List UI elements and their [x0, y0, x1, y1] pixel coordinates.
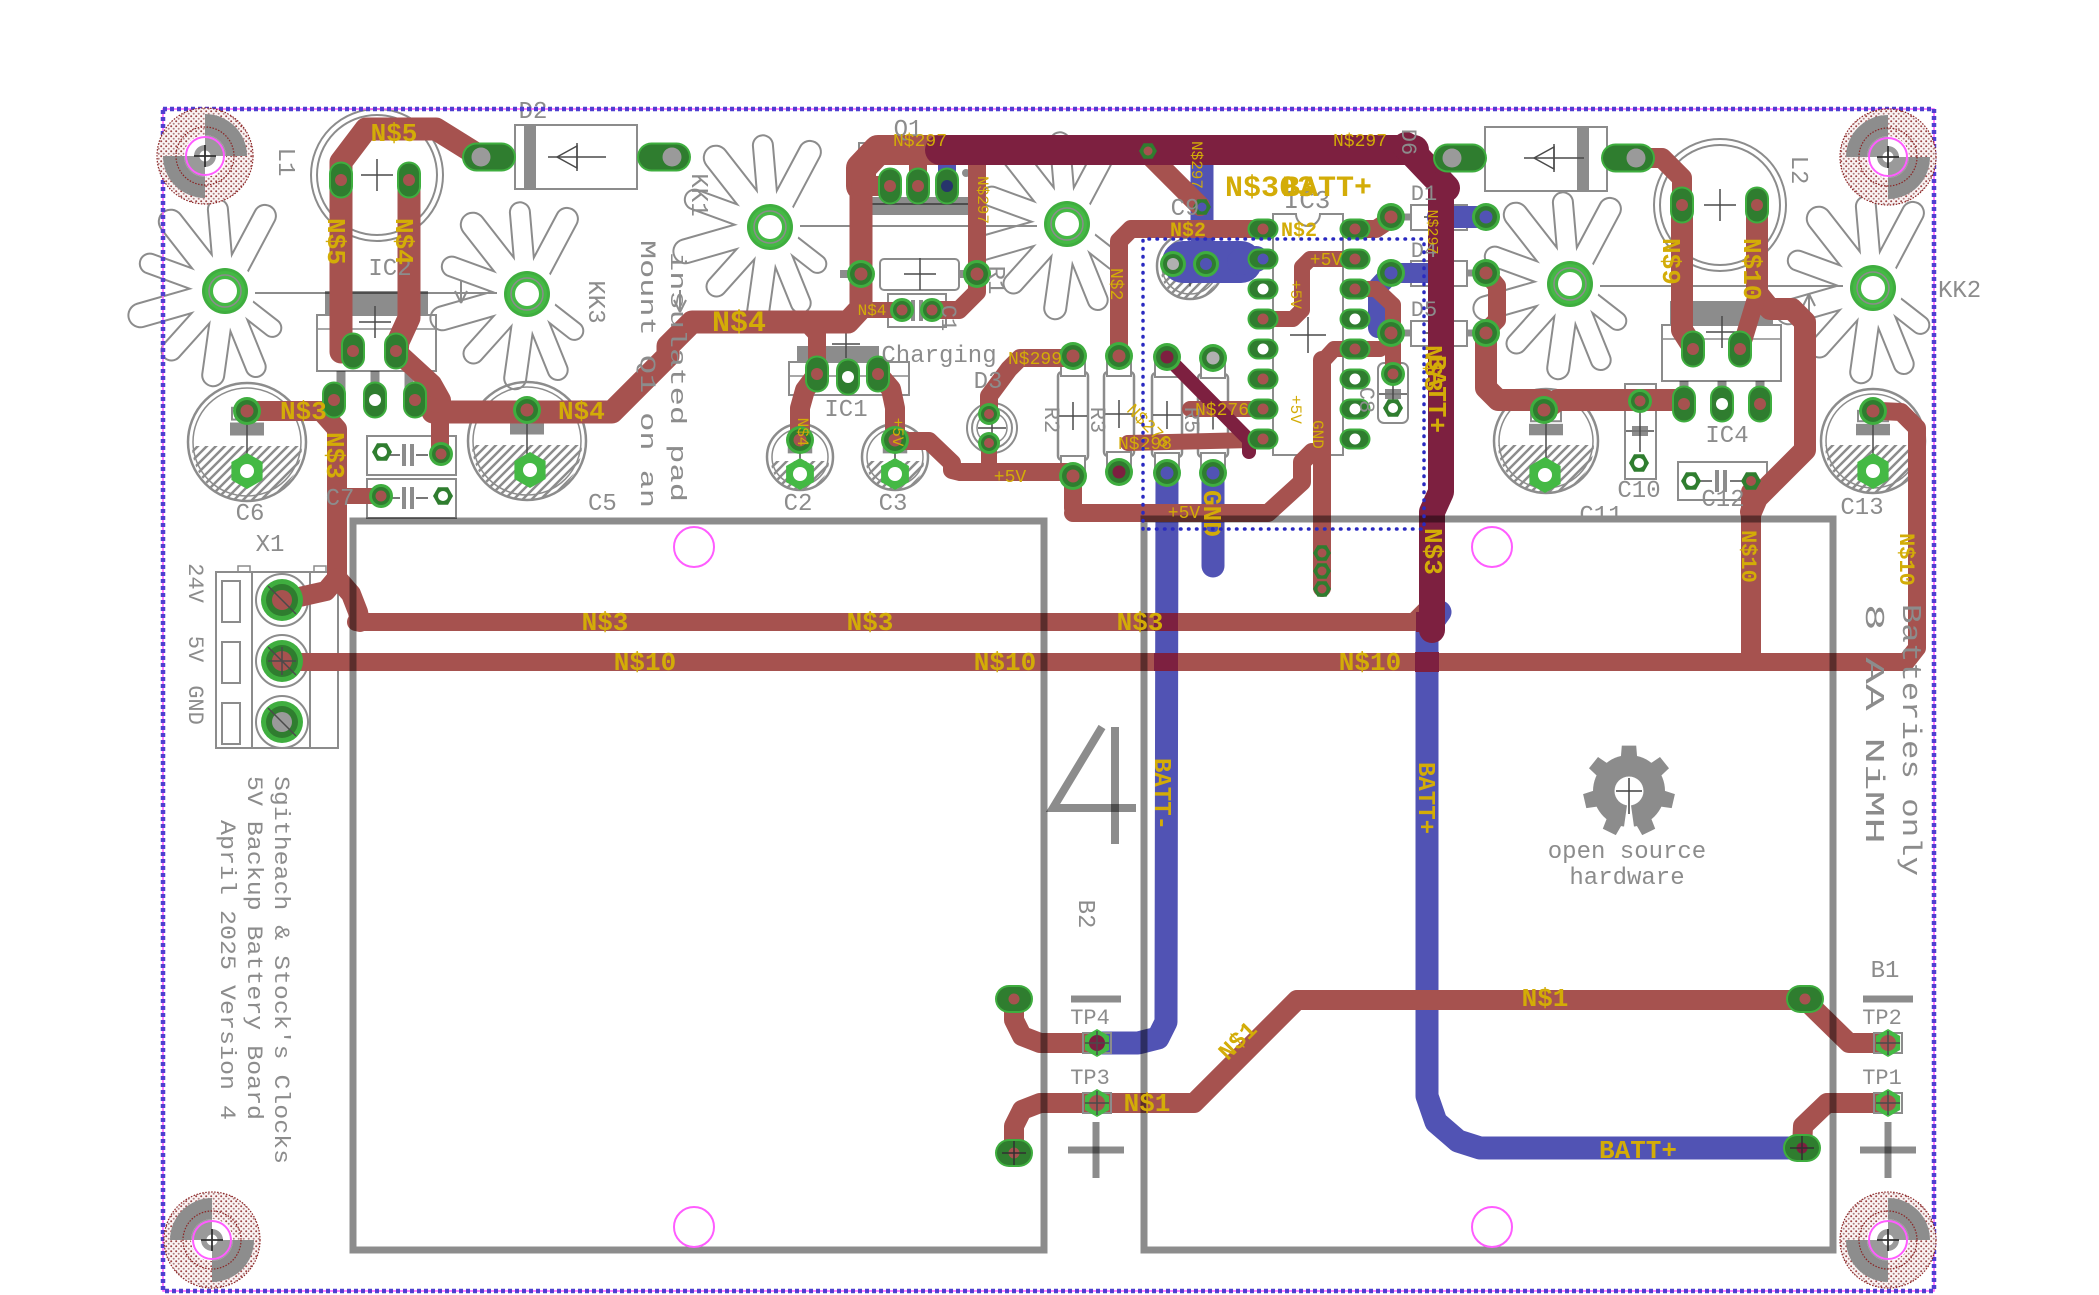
- svg-text:N$2: N$2: [1105, 268, 1125, 300]
- silk plus B2: [1068, 1147, 1124, 1154]
- pad TP2: [1874, 1033, 1902, 1053]
- via GND 1: [1313, 545, 1331, 561]
- wire N$276 diagonal: [1167, 357, 1249, 452]
- heatsink KK1: [685, 145, 817, 311]
- svg-text:GND: GND: [182, 685, 207, 725]
- svg-text:C7: C7: [326, 486, 355, 513]
- pads C5: [513, 396, 541, 424]
- overlap patch N$10 x BATT-: [1154, 653, 1178, 671]
- connector X1 outline: [216, 572, 338, 748]
- pad N$1 right: [1786, 985, 1824, 1013]
- svg-text:TP2: TP2: [1862, 1006, 1902, 1031]
- silk minus B2: [1071, 996, 1121, 1003]
- svg-text:Sgitheach & Stock's Clocks: Sgitheach & Stock's Clocks: [268, 776, 293, 1164]
- wire Q1 pad2 stub: [909, 160, 927, 186]
- pads L2: [1670, 187, 1694, 224]
- wire IC3 pad5R stub: [1355, 341, 1380, 357]
- regulator IC2 outline: [317, 291, 436, 371]
- silk arrow IC4: [1803, 294, 1815, 316]
- capacitor C6 outline: [107, 383, 387, 501]
- svg-text:KK2: KK2: [1938, 278, 1981, 305]
- wire N$297 bottom stub to Q1 pad3: [938, 160, 956, 186]
- svg-text:N$10: N$10: [1893, 533, 1918, 586]
- svg-text:C6: C6: [236, 501, 265, 528]
- svg-text:BATT+: BATT+: [1599, 1136, 1677, 1166]
- pads C7: [372, 443, 392, 460]
- transistor Q1 outline: [859, 143, 977, 204]
- pads C12: [1681, 472, 1701, 489]
- svg-text:L2: L2: [1784, 156, 1811, 185]
- capacitor C12 outline: [1678, 462, 1767, 500]
- pad BATT+ right: [1783, 1134, 1821, 1162]
- svg-text:IC4: IC4: [1705, 423, 1748, 450]
- wire N$1 TP4 branch: [1014, 999, 1097, 1043]
- open source hardware gear logo: [1583, 746, 1675, 836]
- capacitor C3 outline: [781, 424, 1009, 490]
- wire N$297/BATT+ band (top+bottom overlap): [940, 135, 1414, 165]
- capacitor C13 outline: [1740, 389, 2006, 493]
- wire +5V IC1 to C3: [878, 374, 895, 440]
- overlap patch N$3 junction: [1416, 612, 1438, 632]
- svg-text:X1: X1: [256, 532, 285, 559]
- pads R5: [1199, 344, 1227, 372]
- svg-text:N$10: N$10: [974, 648, 1036, 678]
- pads C11: [1530, 396, 1558, 424]
- wire N$10 IC4/L2 branch: [1751, 201, 1805, 512]
- svg-text:+5V: +5V: [1168, 504, 1201, 524]
- wire D4 to D5: [1486, 273, 1497, 331]
- battery holder B2 outline: [353, 521, 1044, 1250]
- svg-text:N$4: N$4: [388, 218, 418, 265]
- wire N$297 band diagonal: [1146, 152, 1200, 206]
- pads R4: [1153, 343, 1181, 371]
- LED D3 outline: [967, 403, 1017, 453]
- svg-text:C11: C11: [1579, 503, 1622, 530]
- wire N$3 junction to bus: [337, 578, 360, 622]
- pads Q1: [878, 168, 902, 205]
- svg-text:C3: C3: [879, 491, 908, 518]
- svg-text:24V: 24V: [182, 563, 207, 603]
- svg-text:N$10: N$10: [1339, 648, 1401, 678]
- IC3 outline: [1273, 214, 1343, 455]
- resistor R3: [1104, 350, 1134, 478]
- heatsink KK2: [1485, 202, 1617, 368]
- capacitor C2 outline: [686, 424, 914, 490]
- capacitor C10 outline: [1625, 384, 1656, 479]
- diode D5 outline: [1411, 321, 1467, 346]
- wire C7 lower to N$3: [346, 488, 381, 504]
- board dimension outline: [163, 109, 1934, 1291]
- svg-text:C8: C8: [1353, 387, 1378, 413]
- capacitor C1 outline: [888, 294, 946, 327]
- svg-text:N$3: N$3: [1417, 528, 1447, 575]
- wire +5V IC3 internal: [1263, 259, 1350, 319]
- wire D6 to L2: [1636, 158, 1682, 201]
- svg-text:N$297: N$297: [1187, 141, 1205, 189]
- diode D4 outline: [1411, 261, 1467, 286]
- inductor L1 outline: [311, 109, 443, 241]
- svg-text:8 AA NiMH: 8 AA NiMH: [1857, 604, 1887, 844]
- svg-text:N$298: N$298: [1118, 435, 1172, 455]
- regulator IC4 outline: [1662, 301, 1781, 381]
- wire IC4 pad4 row: [1544, 400, 1684, 410]
- wire N$298 row: [1128, 440, 1252, 443]
- wire stub IC2 pad to N$4: [396, 351, 441, 412]
- wire N$2 R3 to IC3: [1119, 229, 1258, 356]
- svg-text:N$297: N$297: [1333, 132, 1387, 152]
- svg-text:N$297: N$297: [973, 176, 991, 224]
- wire N$10 horizontal bus: [282, 411, 1917, 662]
- svg-text:C10: C10: [1617, 478, 1660, 505]
- svg-text:+5V: +5V: [888, 418, 906, 447]
- mounting hole top-left: [157, 108, 253, 204]
- svg-text:N$10: N$10: [1736, 238, 1766, 300]
- wire stub D3 cathode: [981, 444, 997, 468]
- battery holder B1 outline: [1144, 519, 1833, 1250]
- pads C2: [786, 426, 814, 454]
- wire C1 pads link: [866, 302, 902, 318]
- regulator IC1 outline: [797, 346, 879, 362]
- svg-text:N$3: N$3: [1117, 608, 1164, 638]
- pad TP3: [1083, 1093, 1111, 1113]
- svg-text:BATT+: BATT+: [1282, 172, 1372, 206]
- pads IC1: [805, 356, 829, 393]
- svg-text:+5V: +5V: [1310, 251, 1343, 271]
- svg-text:N$3: N$3: [847, 608, 894, 638]
- capacitor C8 outline: [1378, 363, 1408, 423]
- svg-text:N$5: N$5: [320, 218, 350, 265]
- via on N$297 band: [1139, 143, 1157, 159]
- wire N$4 L1 to IC2: [397, 177, 409, 352]
- svg-text:N$1: N$1: [1124, 1089, 1171, 1119]
- wire GND IC3 riser: [1313, 360, 1331, 588]
- inductor L2 outline: [1654, 139, 1786, 271]
- wire R1 to C1: [936, 274, 977, 310]
- silk minus B1: [1863, 996, 1913, 1003]
- svg-text:N$299: N$299: [1008, 350, 1062, 370]
- pads C9: [1160, 251, 1186, 277]
- svg-text:N$4: N$4: [858, 302, 887, 320]
- silk plus B1: [1860, 1147, 1916, 1154]
- pads IC3: [1248, 219, 1279, 240]
- pads X1: [261, 579, 303, 621]
- svg-text:N$3: N$3: [582, 608, 629, 638]
- wire bottom C9 to IC3 pad2: [1191, 152, 1214, 238]
- pads KK2: [1547, 261, 1593, 307]
- resistor R2: [1058, 350, 1088, 482]
- pads IC4: [1681, 331, 1705, 368]
- pads C6: [233, 397, 261, 425]
- svg-text:Charging: Charging: [881, 343, 996, 370]
- svg-text:N$3: N$3: [280, 397, 327, 427]
- wire stub IC1 pad1: [806, 322, 817, 374]
- capacitor C5 outline: [387, 382, 667, 500]
- svg-text:N$10: N$10: [614, 648, 676, 678]
- pads C3: [881, 426, 909, 454]
- svg-text:B1: B1: [1871, 958, 1900, 985]
- svg-text:N$9: N$9: [1655, 238, 1685, 285]
- svg-text:TP4: TP4: [1070, 1006, 1110, 1031]
- svg-text:C9: C9: [1171, 196, 1200, 223]
- svg-text:N$4: N$4: [558, 397, 605, 427]
- svg-text:L1: L1: [271, 148, 298, 177]
- mounting hole bottom-right: [1840, 1192, 1936, 1288]
- pads KK3: [202, 268, 248, 314]
- svg-text:TP3: TP3: [1070, 1066, 1110, 1091]
- pads C10: [1628, 389, 1652, 413]
- wire stub C7 upper: [431, 412, 449, 453]
- svg-text:R1: R1: [981, 266, 1008, 295]
- svg-text:5V Backup Battery Board: 5V Backup Battery Board: [241, 776, 266, 1120]
- diode D1 outline: [1411, 205, 1467, 230]
- vrestrict dotted rect: [1143, 239, 1424, 529]
- svg-text:N$10: N$10: [1735, 530, 1760, 583]
- svg-text:+5V: +5V: [1286, 280, 1304, 309]
- pads D3: [978, 403, 1000, 425]
- wire stub IC4 pad2: [1740, 295, 1757, 349]
- via GND 3: [1313, 581, 1331, 597]
- silk arrow IC2: [455, 281, 467, 303]
- svg-text:R3: R3: [1084, 407, 1109, 433]
- wire N$10 riser to C12: [1741, 492, 1761, 656]
- svg-text:N$276: N$276: [1195, 401, 1249, 421]
- resistor R5: [1198, 352, 1228, 479]
- resistor R1 outline: [840, 270, 861, 278]
- svg-text:D2: D2: [519, 99, 548, 126]
- svg-text:hardware: hardware: [1569, 865, 1684, 892]
- pad N$1 left: [995, 985, 1033, 1013]
- wire N$1 to TP2: [1805, 1000, 1888, 1043]
- pad TP1: [1874, 1093, 1902, 1113]
- wire +5V R2 down: [1064, 476, 1082, 508]
- svg-text:C1: C1: [935, 305, 960, 331]
- wire N$276 row: [1190, 401, 1256, 417]
- wire Q1 pad1 stub: [861, 176, 890, 196]
- via N$297 to bottom: [1193, 199, 1211, 215]
- wire N$3 horizontal bus: [356, 600, 1436, 622]
- wire bottom D4 anode: [1378, 273, 1441, 328]
- diode D2 outline: [515, 125, 637, 189]
- svg-text:C13: C13: [1840, 495, 1883, 522]
- pads R2: [1059, 342, 1087, 370]
- wire bottom to D1 cathode: [1438, 206, 1486, 228]
- svg-text:C5: C5: [588, 491, 617, 518]
- svg-text:+5V: +5V: [1286, 395, 1304, 424]
- svg-text:Batteries only: Batteries only: [1894, 604, 1924, 876]
- heatsink KK3: [140, 209, 272, 375]
- overlap patch N$10 x BATT+: [1415, 652, 1439, 672]
- pads D6: [1433, 144, 1487, 173]
- wire IC1 pad2 to C2: [800, 374, 817, 440]
- holder alignment hole bottom-right: [1472, 1207, 1512, 1247]
- pads D5: [1377, 319, 1405, 347]
- overlap patch N$3 x BATT-: [1154, 613, 1178, 631]
- svg-text:IC1: IC1: [824, 397, 867, 424]
- svg-text:C2: C2: [784, 491, 813, 518]
- svg-text:GND: GND: [1308, 420, 1326, 449]
- holder alignment hole top-left: [674, 527, 714, 567]
- wire N$297 Q1 to R1: [968, 163, 986, 274]
- mounting hole bottom-left: [164, 1192, 260, 1288]
- silk big 4: [1053, 727, 1136, 808]
- wire N$5 L1 to D2: [341, 129, 481, 352]
- svg-text:TP1: TP1: [1862, 1066, 1902, 1091]
- resistor R4: [1152, 351, 1182, 479]
- capacitor C9 outline: [1076, 233, 1304, 299]
- wire BATT+ bottom layer: [1427, 612, 1802, 1148]
- wire N$9 L2 to IC4: [1682, 201, 1693, 349]
- svg-text:N$3: N$3: [319, 432, 349, 479]
- svg-text:KK1: KK1: [684, 173, 711, 216]
- wire N$4 C5 to Q1: [433, 178, 861, 412]
- capacitor C7 outline: [367, 436, 456, 475]
- svg-text:N$4: N$4: [793, 418, 811, 447]
- pads R3: [1105, 342, 1133, 370]
- wire D5 to C11 row: [1486, 333, 1545, 400]
- pads D4: [1377, 259, 1405, 287]
- wire N$3 C6 to X1: [247, 411, 337, 600]
- svg-text:+5V: +5V: [994, 468, 1027, 488]
- wire stub IC2 pad to N$3: [330, 396, 334, 411]
- svg-text:N$297: N$297: [893, 132, 947, 152]
- pads C13: [1859, 397, 1887, 425]
- svg-text:N$4: N$4: [712, 307, 766, 341]
- pads D2: [462, 143, 516, 172]
- svg-text:C12: C12: [1701, 487, 1744, 514]
- svg-text:R2: R2: [1038, 407, 1063, 433]
- svg-text:N$1: N$1: [1522, 984, 1569, 1014]
- wire N$2 IC3 pad1R to D1: [1355, 219, 1391, 229]
- svg-text:Mount Q1 on an: Mount Q1 on an: [634, 240, 659, 508]
- pads KK1: [747, 204, 793, 250]
- svg-text:KK3: KK3: [581, 280, 608, 323]
- holder alignment hole bottom-left: [674, 1207, 714, 1247]
- svg-text:D6: D6: [1395, 129, 1420, 155]
- pads L1: [329, 162, 353, 199]
- svg-text:N$297: N$297: [1423, 209, 1440, 254]
- holder alignment hole top-right: [1472, 527, 1512, 567]
- pads C8: [1381, 362, 1405, 386]
- wire N$299 D3 to R2: [989, 358, 1064, 414]
- wire stub IC2 lower right pad: [415, 398, 436, 406]
- svg-text:N$5: N$5: [371, 119, 418, 149]
- wire BATT- bottom layer: [1097, 473, 1167, 1043]
- svg-text:BATT+: BATT+: [1411, 762, 1438, 834]
- via GND 2: [1313, 563, 1331, 579]
- svg-text:insulated pad: insulated pad: [664, 252, 689, 502]
- wire +5V C3 to R2: [895, 441, 1070, 472]
- pads IC2: [341, 333, 365, 370]
- svg-text:D1: D1: [1411, 182, 1437, 207]
- svg-text:5V: 5V: [182, 636, 207, 663]
- wire N$1 TP3 bus: [1014, 1000, 1805, 1153]
- capacitor C11 outline: [1413, 389, 1679, 493]
- pads R1: [847, 260, 875, 288]
- wire TP1 to BATT+ pad: [1802, 1103, 1888, 1148]
- pads D1: [1377, 203, 1405, 231]
- wire GND bottom layer stub: [1202, 473, 1225, 566]
- svg-text:B2: B2: [1071, 900, 1098, 929]
- svg-text:April 2025 Version 4: April 2025 Version 4: [214, 820, 239, 1120]
- svg-text:open source: open source: [1548, 839, 1706, 866]
- wire IC3 pad3R to C8: [1355, 289, 1393, 372]
- diode D6 outline: [1485, 127, 1607, 191]
- mounting hole top-right: [1840, 109, 1936, 205]
- svg-text:BATT-: BATT-: [1147, 758, 1174, 830]
- wire +5V horizontal: [1073, 452, 1312, 513]
- pad TP4: [1083, 1033, 1111, 1053]
- svg-text:D3: D3: [974, 369, 1003, 396]
- pads C1: [890, 298, 914, 322]
